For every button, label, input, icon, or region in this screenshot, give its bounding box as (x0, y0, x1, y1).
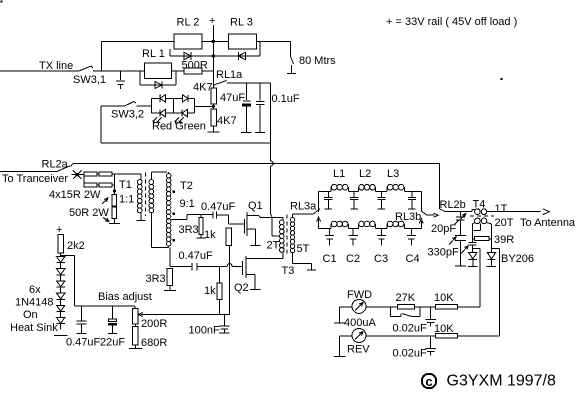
ground T1 primary (140, 213, 142, 220)
diode BY206 reverse (487, 252, 495, 259)
svg-text:Heat Sink: Heat Sink (10, 322, 58, 334)
wire 500R to +rail node (202, 70, 213, 72)
node dot above 50R (113, 189, 116, 192)
wire REV line (366, 335, 435, 337)
svg-text:1T: 1T (495, 203, 508, 215)
transformer T1 primary (140, 174, 142, 180)
transformer T4 secondary (475, 218, 481, 224)
capacitor 0.47uF lower (170, 265, 192, 267)
wire 10K to REV takeoff (458, 335, 500, 337)
svg-text:2T: 2T (267, 240, 280, 252)
LED red (160, 110, 165, 117)
wire bias tap (61, 255, 75, 257)
svg-text:1:1: 1:1 (119, 194, 134, 206)
transformer T3 core (286, 215, 288, 257)
LED green (182, 110, 187, 117)
svg-text:0.02uF: 0.02uF (393, 348, 428, 360)
resistor 680R (134, 324, 136, 327)
transistor Q2 (242, 261, 244, 275)
svg-text:Q2: Q2 (234, 282, 249, 294)
svg-text:L2: L2 (359, 168, 371, 180)
phase dot T2 c (172, 239, 175, 242)
ground Q1 source (250, 245, 260, 247)
ground below 4K7 (212, 126, 214, 132)
diode across RL2 (169, 49, 171, 56)
svg-text:4K7: 4K7 (193, 82, 213, 94)
switch contact RL3a (314, 209, 320, 214)
relay coil RL3 (229, 41, 257, 43)
svg-text:22uF: 22uF (100, 337, 125, 349)
inductor L6 bottom row (386, 224, 388, 229)
relay coil RL2 (174, 41, 202, 43)
svg-text:BY206: BY206 (501, 253, 534, 265)
stray dot (0, 0, 2, 2)
pointer arrows 50R (102, 198, 108, 204)
switch contact RL2a (57, 166, 70, 172)
svg-text:1N4148: 1N4148 (15, 297, 54, 309)
svg-text:39R: 39R (494, 234, 514, 246)
svg-text:RL3a: RL3a (290, 201, 317, 213)
ground diode chain (54, 335, 68, 337)
svg-text:TX line: TX line (39, 60, 73, 72)
capacitor 47uF (246, 83, 248, 100)
resistor 1k lower (219, 266, 221, 283)
wire SW3,2 to LEDs (137, 105, 152, 107)
svg-text:T3: T3 (282, 265, 295, 277)
pointer arrow 330pF (449, 238, 456, 245)
svg-text:200R: 200R (141, 318, 167, 330)
wire cap to Q1 gate (217, 214, 229, 216)
svg-text:C1: C1 (323, 253, 337, 265)
meter REV (340, 335, 352, 337)
wire T3 to RL3a (293, 213, 314, 215)
contact arrow RL3a lower (318, 219, 320, 229)
transformer T4 primary (471, 209, 473, 211)
svg-text:330pF: 330pF (428, 247, 459, 259)
wire RL1a to caps (227, 82, 271, 84)
inductor L4 bottom row (330, 224, 332, 229)
resistor 1k upper (226, 228, 231, 246)
svg-text:400uA: 400uA (344, 317, 376, 329)
wire Q1 drain (247, 215, 259, 217)
capacitor filter top 1 (327, 192, 329, 197)
wire FWD takeoff (472, 247, 480, 249)
wire +33V feed vertical (270, 83, 272, 161)
capacitor C3 (381, 229, 383, 236)
svg-text:4K7: 4K7 (217, 115, 237, 127)
switch across 27K (390, 307, 392, 317)
wire RL2b to T4 (445, 211, 472, 213)
phase dot T2 a (172, 190, 175, 193)
wire T4 sec left leg (471, 224, 473, 242)
svg-text:On: On (23, 309, 38, 321)
wire hop over bias (227, 264, 232, 267)
ground diode rev (487, 266, 497, 268)
wire filter top output (421, 192, 423, 212)
ground diode fwd (468, 265, 478, 267)
wire T1 sec to T2 top (151, 171, 167, 173)
svg-text:REV: REV (347, 344, 370, 356)
wire T4 sec right leg (491, 224, 493, 252)
wire T2 tap (171, 219, 187, 221)
svg-text:0.47uF: 0.47uF (201, 201, 236, 213)
wire filter top row (319, 191, 331, 193)
resistor 50R 2W first (112, 195, 117, 207)
transistor Q1 (244, 219, 246, 234)
ground FWD meter (339, 307, 341, 323)
transformer T3 secondary (292, 214, 294, 218)
wiper arrow 200R (138, 313, 143, 317)
wire between 4K7s (212, 104, 214, 109)
diode across RL3 (213, 55, 260, 57)
diode top-left (159, 94, 161, 96)
svg-text:27K: 27K (396, 292, 416, 304)
svg-text:9:1: 9:1 (180, 198, 195, 210)
wire REV takeoff (492, 247, 500, 249)
wire SW3,2 loop (100, 106, 102, 143)
ground REV meter (339, 336, 341, 356)
resistor 3R3 lower (167, 269, 172, 286)
wire 10K to FWD takeoff (458, 306, 480, 308)
svg-text:1k: 1k (204, 285, 216, 297)
svg-text:80 Mtrs: 80 Mtrs (299, 55, 336, 67)
capacitor 330pF (459, 220, 461, 235)
svg-text:To Tranceiver: To Tranceiver (2, 173, 68, 185)
wire T1 sec bottom (150, 213, 152, 248)
pointer arrow cap (461, 247, 468, 254)
svg-text:2k2: 2k2 (67, 240, 85, 252)
capacitor 0.02uF FWD (430, 307, 432, 319)
svg-text:L3: L3 (387, 168, 399, 180)
copyright symbol (422, 374, 436, 388)
svg-text:Q1: Q1 (248, 200, 263, 212)
transformer T1 secondary (149, 180, 154, 185)
capacitor filter top 3 (380, 192, 382, 197)
wire T2 bottom to gate (169, 247, 171, 266)
ground 3R3 upper (200, 234, 202, 237)
wire network to T1 (114, 173, 141, 175)
wire top supply rail (102, 41, 174, 43)
svg-text:4x15R 2W: 4x15R 2W (49, 189, 101, 201)
switch SW3,1 (79, 66, 91, 71)
capacitor filter top 4 (411, 192, 413, 197)
switch contact RL1a (214, 81, 227, 86)
svg-text:0.47uF: 0.47uF (66, 337, 101, 349)
svg-text:RL2a: RL2a (42, 159, 69, 171)
svg-text:T4: T4 (473, 199, 486, 211)
ground Q2 source (250, 288, 260, 290)
resistor 4K7 upper (212, 85, 214, 88)
node LED feed dot (212, 105, 215, 108)
transformer T1 core (145, 173, 147, 217)
svg-text:0.1uF: 0.1uF (272, 93, 300, 105)
capacitor in left leg (468, 242, 476, 244)
capacitor 0.02uF REV (430, 336, 432, 348)
svg-text:1k: 1k (204, 229, 216, 241)
capacitor filter top 2 (353, 192, 355, 197)
wire filter bottom row (319, 228, 331, 230)
svg-text:10K: 10K (434, 323, 454, 335)
wire bias rail B (141, 314, 230, 316)
svg-text:Red Green: Red Green (152, 121, 206, 133)
wire bias rail (75, 305, 136, 307)
svg-text:SW3,1: SW3,1 (73, 74, 106, 86)
wire Q2 drain (246, 258, 283, 260)
resistor 50R 2W second (113, 206, 115, 207)
wire TX line to RL1 (93, 70, 145, 72)
svg-text:20pF: 20pF (431, 223, 456, 235)
capacitor 20pF trimmer (459, 212, 461, 217)
svg-text:c: c (425, 374, 432, 389)
svg-text:20T: 20T (495, 217, 514, 229)
transformer T4 core (470, 215, 494, 217)
capacitor 0.47uF upper (212, 211, 214, 218)
wire LED ladder feed (195, 105, 214, 107)
relay coil RL1 (145, 63, 172, 79)
svg-text:10K: 10K (434, 292, 454, 304)
svg-text:T1: T1 (119, 179, 132, 191)
node junction dot upper (212, 40, 216, 44)
svg-text:3R3: 3R3 (179, 224, 199, 236)
wire +33V vertical (212, 25, 214, 85)
switch 80 Mtrs (289, 42, 291, 57)
transformer T2 winding (168, 172, 170, 173)
wire filter top input (318, 192, 320, 213)
resistor 2k2 (58, 235, 64, 254)
resistor 39R (472, 238, 474, 240)
ground below 50R (113, 219, 115, 224)
diode chain 6x 1N4148 (57, 257, 65, 263)
svg-text:To Antenna: To Antenna (520, 217, 576, 229)
svg-text:100nF: 100nF (189, 325, 220, 337)
phase dot T2 b (172, 212, 175, 215)
capacitor C4 (410, 229, 412, 236)
potentiometer 200R (134, 306, 136, 309)
wire RF through line (71, 164, 74, 167)
wire between relays (202, 41, 229, 43)
switch SW3,2 (101, 105, 125, 107)
diode top-right (183, 95, 188, 102)
ground 680R (134, 345, 136, 348)
wire to Q2 gate (232, 265, 243, 267)
svg-text:680R: 680R (141, 337, 167, 349)
capacitor C2 (352, 229, 354, 236)
diode BY206 forward (469, 252, 477, 259)
svg-text:RL1a: RL1a (216, 69, 243, 81)
svg-text:500R: 500R (182, 60, 208, 72)
capacitor 22uF (112, 306, 114, 319)
svg-text:47uF: 47uF (220, 92, 245, 104)
svg-text:RL2b: RL2b (440, 199, 466, 211)
resistor 10K FWD (435, 305, 457, 309)
svg-text:5T: 5T (297, 243, 310, 255)
capacitor 0.1uF (259, 83, 261, 101)
wire to antenna (487, 211, 541, 213)
svg-text:+ = 33V rail ( 45V off load ): + = 33V rail ( 45V off load ) (386, 16, 517, 28)
svg-text:C2: C2 (346, 253, 360, 265)
label bias adjust arrow (0, 0, 1, 1)
diode across RL1 (139, 71, 141, 85)
inductor L5 bottom row (357, 224, 359, 229)
svg-text:L1: L1 (333, 168, 345, 180)
wire 27K to 10K (415, 306, 436, 308)
ground 330pF (455, 265, 466, 267)
resistor 3R3 upper (200, 215, 202, 218)
svg-text:6x: 6x (29, 284, 41, 296)
resistor 500R (184, 68, 202, 74)
contact arrow RL3b lower (420, 221, 422, 229)
wire T3 center tap (272, 235, 280, 237)
svg-text:RL 3: RL 3 (230, 17, 253, 29)
transformer T3 primary (282, 218, 284, 220)
resistor 27K (398, 305, 415, 310)
node junction dot lower (212, 54, 216, 58)
wire T3 sec bottom (292, 253, 294, 264)
inductor L3 (386, 187, 388, 191)
svg-text:0.47uF: 0.47uF (179, 250, 214, 262)
capacitor 100nF (223, 315, 225, 326)
capacitor 0.47uF bias (81, 306, 83, 321)
resistor 10K REV (435, 334, 457, 338)
resistor 4K7 lower (211, 109, 217, 126)
svg-text:+: + (209, 15, 215, 27)
wire FWD line (366, 306, 398, 308)
capacitor C1 (329, 229, 331, 236)
wire node to top rail (101, 42, 103, 72)
svg-text:C3: C3 (374, 253, 388, 265)
ground T3 secondary (307, 269, 316, 271)
wire RL3 to 80m switch (257, 41, 291, 43)
node X junction (73, 170, 82, 179)
svg-text:Bias adjust: Bias adjust (98, 291, 152, 303)
svg-text:0.02uF: 0.02uF (393, 323, 428, 335)
svg-text:RL 1: RL 1 (142, 48, 165, 60)
resistor network 4x15R 2W (83, 174, 85, 185)
wire 2k2 to diodes (60, 253, 62, 257)
inductor L2 (357, 187, 359, 191)
ground 3R3 lower (169, 286, 171, 291)
svg-text:RL 2: RL 2 (177, 17, 200, 29)
wire TX line input (0, 70, 79, 72)
wire To Tranceiver (0, 171, 57, 173)
switch RL2b (438, 164, 440, 209)
svg-text:3R3: 3R3 (146, 273, 166, 285)
svg-text:SW3,2: SW3,2 (111, 109, 144, 121)
inductor L1 (330, 187, 332, 191)
svg-text:C4: C4 (406, 253, 420, 265)
svg-text:G3YXM 1997/8: G3YXM 1997/8 (447, 373, 557, 390)
meter FWD (340, 306, 352, 308)
svg-text:RL3b: RL3b (395, 211, 421, 223)
LED ladder frame (151, 98, 153, 113)
svg-text:FWD: FWD (347, 289, 372, 301)
capacitor at TX line (119, 71, 121, 80)
wire bias vertical (229, 246, 231, 315)
wire RL1 to 500R (172, 70, 185, 72)
svg-text:T2: T2 (180, 180, 193, 192)
